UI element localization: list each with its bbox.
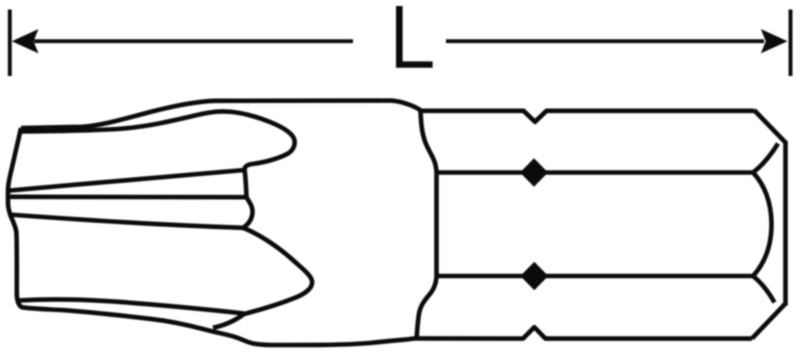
shank left transition arc: [417, 111, 437, 338]
shank right bottom chamfer: [752, 304, 785, 339]
bottom facet right edge: [213, 314, 244, 328]
big lower lobe: [243, 228, 312, 314]
bit tip: bottom silhouette edge: [17, 294, 415, 345]
detent diamond lower: [520, 262, 548, 291]
hex edge line 1: [437, 170, 754, 175]
middle bulge: [243, 197, 253, 228]
shank right edge: [783, 141, 788, 306]
shank bottom edge with notch: [414, 327, 752, 338]
right end arc middle: [753, 173, 772, 277]
shank top edge with notch: [421, 111, 755, 122]
bit tip: top silhouette edge: [21, 101, 421, 128]
dimension line left segment: [34, 39, 353, 43]
bit tip: left silhouette edge: [8, 128, 21, 296]
dimension line right segment: [446, 39, 764, 43]
dimension extension bar left: [8, 10, 12, 77]
lower waist line: [9, 215, 244, 228]
upper waist line: [10, 170, 245, 191]
middle waist line: [9, 195, 247, 200]
top facet lobe line: [21, 111, 295, 169]
neck line: [245, 169, 247, 197]
bottom facet top line: [19, 299, 244, 313]
right end arc upper: [753, 144, 778, 173]
right end arc lower: [753, 276, 775, 303]
arrowhead left: [12, 29, 39, 53]
shank right top chamfer: [754, 110, 786, 143]
detent diamond upper: [520, 158, 548, 187]
arrowhead right: [761, 29, 788, 53]
label L: [396, 6, 433, 68]
dimension extension bar right: [789, 10, 793, 77]
hex edge line 2: [437, 274, 754, 279]
